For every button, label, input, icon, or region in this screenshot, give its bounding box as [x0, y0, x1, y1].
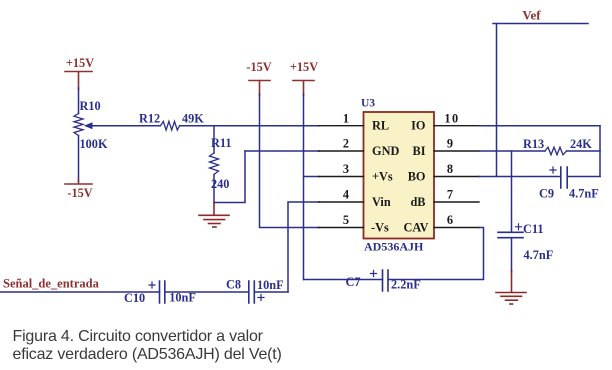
svg-text:5: 5: [343, 213, 349, 227]
wire pin10 row: [479, 125, 600, 127]
capacitor C11: [498, 222, 553, 262]
svg-text:Vef: Vef: [522, 8, 541, 23]
resistor R13: [523, 137, 592, 155]
op-amp U3 AD536AJH body: [361, 98, 434, 254]
svg-text:240: 240: [211, 177, 229, 191]
pin 6 CAV: [403, 213, 479, 235]
power -15V rail symbol: [246, 60, 271, 95]
svg-text:24K: 24K: [570, 137, 592, 151]
svg-text:4: 4: [343, 188, 349, 202]
svg-text:R11: R11: [211, 136, 232, 150]
wire C8 to pin4 riser: [254, 291, 288, 293]
caption figura 4: [13, 328, 282, 363]
wire C11 bottom: [511, 238, 513, 272]
svg-text:C10: C10: [124, 291, 145, 305]
capacitor C9: [539, 167, 599, 201]
svg-text:6: 6: [447, 213, 453, 227]
svg-text:Vin: Vin: [372, 195, 391, 209]
svg-text:R10: R10: [80, 99, 101, 113]
svg-text:AD536AJH: AD536AJH: [364, 240, 424, 254]
capacitor C10: [124, 281, 196, 305]
wire Vef stub: [493, 23, 588, 25]
svg-text:C11: C11: [523, 222, 544, 236]
svg-text:9: 9: [447, 137, 453, 151]
svg-text:+15V: +15V: [290, 60, 318, 74]
pin 7 dB: [410, 188, 479, 210]
svg-text:R12: R12: [139, 112, 160, 126]
svg-text:C7: C7: [346, 275, 361, 289]
wire +15V tee to pin3: [304, 176, 320, 178]
wire C10 to C8: [165, 291, 249, 293]
svg-text:-15V: -15V: [67, 186, 92, 200]
svg-text:100K: 100K: [80, 137, 108, 151]
pin 10 IO: [411, 112, 479, 133]
wire -15V rail to pin5: [260, 94, 320, 228]
wire C7 left to +15V rail: [304, 279, 383, 281]
wire Vef drop to pin8: [496, 24, 498, 177]
svg-text:-15V: -15V: [246, 60, 271, 74]
potentiometer R10: [74, 99, 108, 151]
svg-text:CAV: CAV: [403, 221, 428, 235]
power -15V left symbol: [65, 180, 93, 200]
wire R11 bottom to pin2 riser: [214, 151, 245, 203]
svg-text:Figura 4. Circuito convertidor: Figura 4. Circuito convertidor a valor: [13, 328, 264, 345]
svg-text:2: 2: [343, 137, 349, 151]
wire pin9 to R13: [479, 150, 545, 152]
svg-text:BO: BO: [408, 170, 426, 184]
pin 2 GND: [319, 137, 400, 159]
wire pot bottom: [78, 136, 80, 182]
pin 9 BI: [413, 137, 480, 159]
wire junction riser pin9 to C11: [511, 151, 513, 231]
svg-text:U3: U3: [361, 98, 375, 110]
wire +15V rail down to C7: [303, 94, 305, 280]
svg-text:4.7nF: 4.7nF: [524, 248, 554, 262]
svg-text:dB: dB: [410, 195, 425, 209]
wire signal input: [0, 291, 160, 293]
svg-text:49K: 49K: [182, 112, 204, 126]
svg-text:3: 3: [343, 162, 349, 176]
power +15V rail symbol: [290, 60, 318, 95]
svg-text:Señal_de_entrada: Señal_de_entrada: [3, 277, 100, 291]
pin 5 -Vs: [319, 213, 389, 235]
svg-text:4.7nF: 4.7nF: [569, 187, 599, 201]
pin 3 +Vs: [319, 162, 393, 184]
capacitor C8: [226, 278, 284, 304]
svg-text:7: 7: [447, 188, 453, 202]
wire R12 to pin1: [180, 125, 319, 127]
svg-text:10nF: 10nF: [257, 278, 284, 292]
wire pin6 to C7: [388, 228, 484, 280]
svg-text:2.2nF: 2.2nF: [391, 278, 421, 292]
svg-text:+Vs: +Vs: [372, 170, 393, 184]
wire wiper to R12: [93, 125, 160, 127]
svg-text:C8: C8: [226, 278, 241, 292]
wire pin2 row: [245, 150, 319, 152]
svg-text:C9: C9: [539, 187, 554, 201]
wire C9 right: [567, 176, 600, 178]
wire right drop pin10 to C9: [599, 126, 601, 177]
resistor R12: [139, 112, 204, 131]
svg-text:-Vs: -Vs: [371, 221, 389, 235]
svg-text:10: 10: [444, 112, 459, 126]
svg-text:1: 1: [343, 112, 349, 126]
ground under R11: [199, 203, 229, 228]
ground under C11: [496, 271, 526, 304]
pin 4 Vin: [319, 188, 391, 210]
svg-text:RL: RL: [372, 119, 389, 133]
capacitor C7: [346, 270, 421, 292]
svg-text:+15V: +15V: [66, 56, 94, 70]
wire pin4 to C8 riser: [288, 202, 319, 292]
svg-text:R13: R13: [523, 137, 544, 151]
svg-text:8: 8: [447, 162, 453, 176]
wire pot top: [78, 88, 80, 114]
svg-text:eficaz verdadero (AD536AJH) de: eficaz verdadero (AD536AJH) del Ve(t): [13, 346, 282, 363]
svg-text:BI: BI: [413, 144, 426, 158]
svg-text:GND: GND: [372, 144, 399, 158]
wire pin8 row to C9: [479, 176, 561, 178]
svg-text:IO: IO: [411, 119, 425, 133]
pin 1 RL: [319, 112, 390, 133]
wire R13 right: [567, 150, 601, 152]
resistor R11: [210, 126, 232, 203]
power +15V left symbol: [65, 56, 94, 89]
pin 8 BO: [408, 162, 479, 184]
